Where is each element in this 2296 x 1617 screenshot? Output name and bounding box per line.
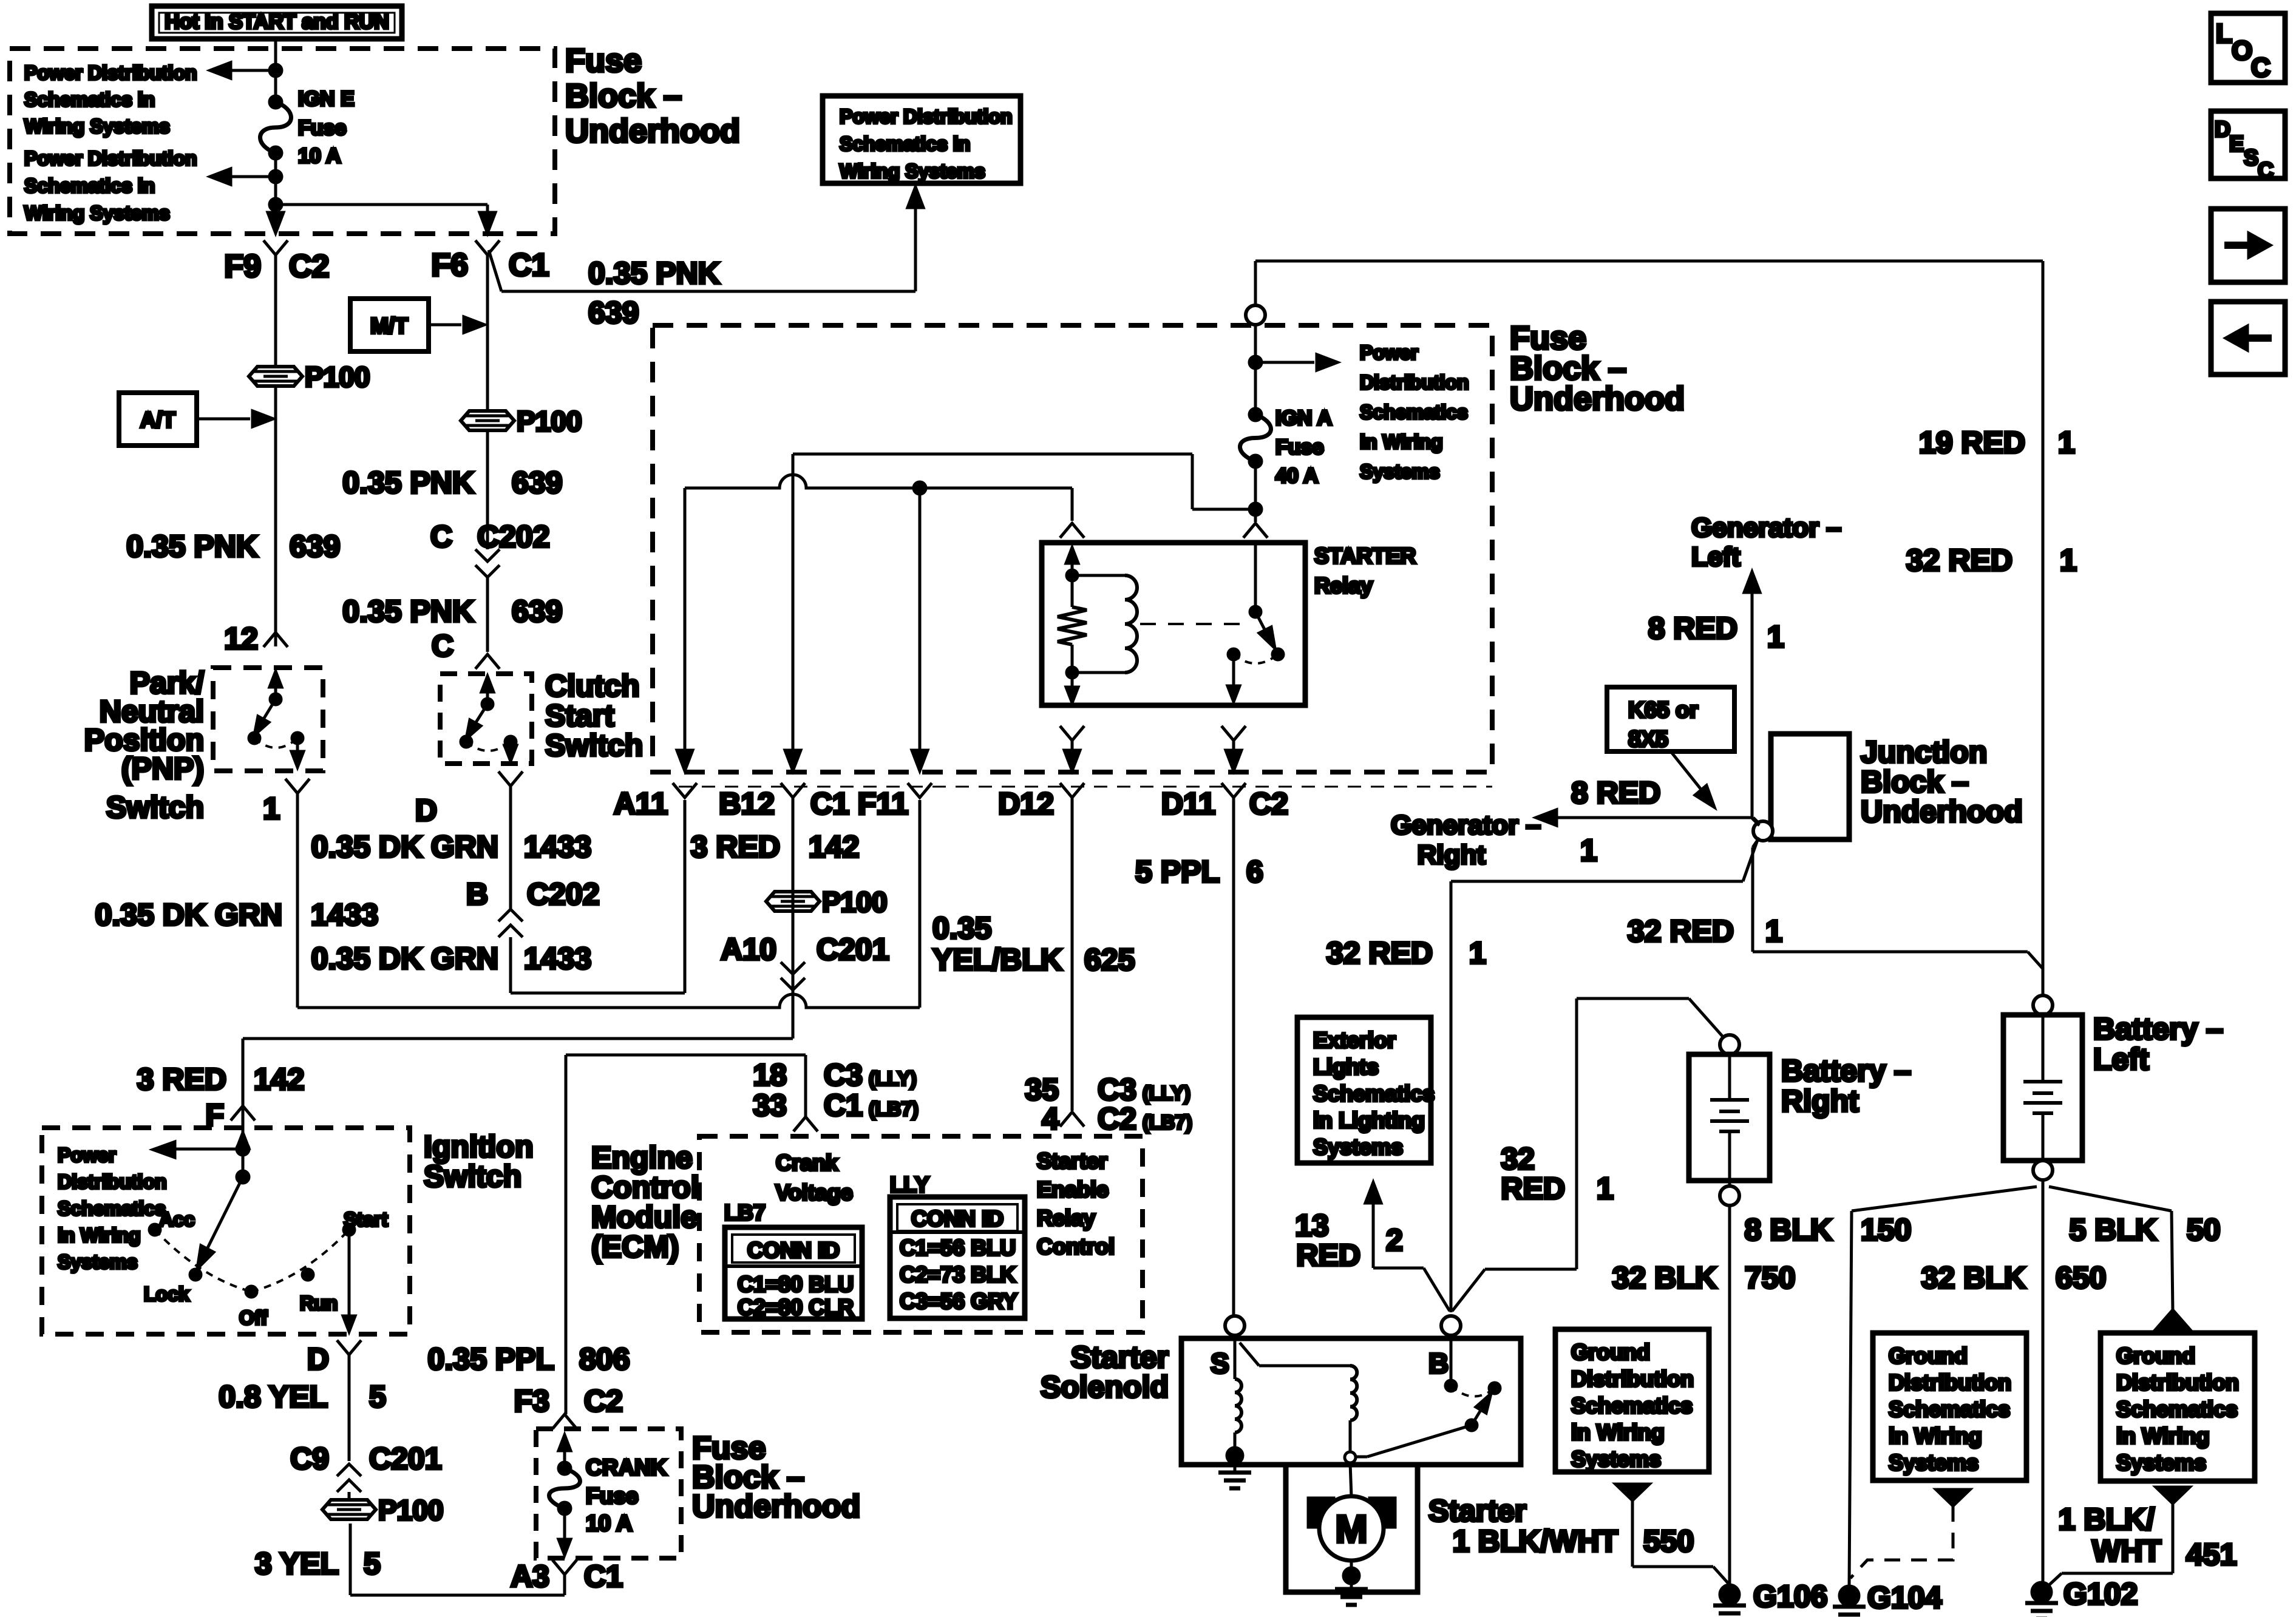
svg-text:WHT: WHT bbox=[2092, 1534, 2161, 1568]
thin connector dashed line below box2 bbox=[679, 786, 1492, 788]
ignition contacts bbox=[149, 1224, 160, 1235]
svg-text:Distribution: Distribution bbox=[1571, 1366, 1694, 1391]
svg-text:32 BLK: 32 BLK bbox=[1921, 1261, 2026, 1295]
svg-text:C9: C9 bbox=[290, 1442, 329, 1476]
svg-text:5 BLK: 5 BLK bbox=[2070, 1213, 2157, 1247]
svg-text:D11: D11 bbox=[1161, 787, 1215, 821]
svg-text:D12: D12 bbox=[998, 787, 1054, 821]
wire: P100 down to PNP switch bbox=[274, 386, 277, 646]
solenoid coil 1 bbox=[1234, 1335, 1237, 1379]
svg-text:Enable: Enable bbox=[1037, 1177, 1109, 1202]
solenoid coil 2 branch bbox=[1240, 1343, 1259, 1366]
wire: clutch output down to C202 (B) bbox=[509, 786, 512, 909]
connector P100 (ignition) bbox=[348, 1492, 351, 1500]
ignition internals bbox=[242, 1128, 245, 1177]
svg-text:2: 2 bbox=[1386, 1223, 1403, 1257]
svg-text:32 RED: 32 RED bbox=[1326, 936, 1433, 970]
svg-text:5 PPL: 5 PPL bbox=[1135, 855, 1220, 889]
svg-text:Schematics: Schematics bbox=[1889, 1397, 2010, 1422]
svg-text:P100: P100 bbox=[517, 405, 582, 437]
svg-text:S: S bbox=[2244, 145, 2258, 170]
svg-text:1 BLK/WHT: 1 BLK/WHT bbox=[1453, 1524, 1618, 1558]
svg-text:Underhood: Underhood bbox=[692, 1489, 860, 1524]
svg-text:40 A: 40 A bbox=[1275, 464, 1319, 487]
ring junction on box2 border bbox=[1246, 305, 1265, 325]
svg-text:Underhood: Underhood bbox=[1510, 381, 1685, 417]
junction dot on C1F11 bbox=[914, 482, 926, 494]
clutch input connector bbox=[475, 654, 500, 669]
svg-text:M/T: M/T bbox=[370, 313, 408, 338]
svg-text:1433: 1433 bbox=[524, 941, 591, 975]
svg-text:32 BLK: 32 BLK bbox=[1612, 1261, 1717, 1295]
svg-text:Fuse: Fuse bbox=[565, 42, 642, 79]
svg-text:1: 1 bbox=[1597, 1171, 1614, 1205]
svg-text:Block –: Block – bbox=[565, 78, 682, 114]
svg-text:L: L bbox=[2216, 19, 2232, 49]
svg-text:CONN ID: CONN ID bbox=[747, 1238, 840, 1263]
svg-text:Underhood: Underhood bbox=[565, 113, 740, 149]
svg-text:5: 5 bbox=[369, 1380, 386, 1414]
Starter Solenoid box bbox=[1225, 1316, 1245, 1335]
wire below IGN A fuse bbox=[1254, 461, 1257, 522]
svg-text:in Wiring: in Wiring bbox=[58, 1224, 141, 1246]
fuse IGN A 40A bbox=[1249, 408, 1262, 421]
svg-text:8 RED: 8 RED bbox=[1571, 776, 1660, 810]
wire branch to F6 column bbox=[276, 203, 487, 206]
svg-text:Block –: Block – bbox=[1861, 765, 1969, 799]
wire: PNP output down bbox=[296, 793, 299, 1008]
svg-text:P100: P100 bbox=[305, 361, 370, 393]
svg-text:C201: C201 bbox=[817, 932, 889, 966]
svg-text:0.35 PNK: 0.35 PNK bbox=[342, 466, 474, 500]
svg-text:Schematics: Schematics bbox=[1571, 1393, 1693, 1418]
svg-text:Power: Power bbox=[1360, 342, 1418, 364]
junction dot / branch to F6 bbox=[270, 198, 282, 211]
svg-text:Wiring Systems: Wiring Systems bbox=[24, 202, 170, 224]
svg-text:550: 550 bbox=[1643, 1524, 1694, 1558]
svg-text:32 RED: 32 RED bbox=[1906, 543, 2012, 577]
connector P100 (on B12 wire) bbox=[766, 892, 820, 911]
svg-text:0.35 DK GRN: 0.35 DK GRN bbox=[311, 830, 498, 864]
Battery - Right bbox=[1720, 1035, 1739, 1054]
wire: B12 column to ignition bus bbox=[792, 798, 795, 1039]
svg-text:C1 F11: C1 F11 bbox=[810, 787, 908, 821]
svg-text:18: 18 bbox=[753, 1058, 787, 1092]
svg-text:C1: C1 bbox=[509, 248, 549, 283]
svg-text:32 RED: 32 RED bbox=[1628, 914, 1734, 948]
output triangle and 1 BLK/WHT 550 wire bbox=[1615, 1484, 1649, 1500]
svg-text:Schematics in: Schematics in bbox=[840, 133, 970, 155]
svg-text:Systems: Systems bbox=[2116, 1450, 2206, 1475]
svg-text:1433: 1433 bbox=[311, 898, 378, 932]
svg-text:(PNP): (PNP) bbox=[121, 751, 204, 785]
wire: P100 down to C202 bbox=[486, 430, 489, 549]
crank fuse internals bbox=[563, 1439, 566, 1468]
svg-text:C: C bbox=[432, 629, 453, 663]
svg-text:1: 1 bbox=[263, 792, 280, 825]
svg-text:C2: C2 bbox=[289, 249, 329, 284]
svg-text:in Wiring: in Wiring bbox=[1889, 1423, 1982, 1448]
arrow into fuse block border (F6) bbox=[480, 212, 495, 233]
Ground Distribution box (G102) bbox=[2101, 1333, 2255, 1481]
svg-text:5: 5 bbox=[364, 1547, 381, 1581]
svg-text:A10: A10 bbox=[721, 932, 776, 966]
svg-text:Wiring Systems: Wiring Systems bbox=[840, 160, 985, 182]
junction dot (bus from B12) bbox=[1249, 503, 1262, 515]
wire: A3 down and left to P100 column bbox=[563, 1575, 566, 1595]
svg-text:1: 1 bbox=[1767, 620, 1784, 654]
svg-text:C1: C1 bbox=[824, 1088, 863, 1122]
wire: D12 column to ECM bbox=[1071, 798, 1074, 1111]
svg-text:639: 639 bbox=[588, 296, 639, 330]
wire: 0.35 PPL 806 column bbox=[565, 1055, 568, 1414]
svg-text:Fuse: Fuse bbox=[1275, 436, 1323, 459]
svg-text:Systems: Systems bbox=[1313, 1134, 1403, 1159]
svg-text:O: O bbox=[2232, 36, 2252, 66]
svg-text:D: D bbox=[307, 1342, 329, 1376]
svg-text:C2: C2 bbox=[1098, 1102, 1136, 1136]
svg-text:Systems: Systems bbox=[1360, 461, 1440, 483]
svg-text:Fuse: Fuse bbox=[298, 117, 346, 140]
svg-text:50: 50 bbox=[2187, 1213, 2221, 1247]
svg-text:451: 451 bbox=[2186, 1537, 2237, 1571]
svg-text:(ECM): (ECM) bbox=[591, 1230, 679, 1264]
svg-text:LLY: LLY bbox=[890, 1172, 929, 1197]
svg-text:C1=80 BLU: C1=80 BLU bbox=[738, 1272, 854, 1297]
svg-text:Engine: Engine bbox=[591, 1141, 693, 1175]
svg-text:150: 150 bbox=[1861, 1213, 1911, 1247]
svg-text:Acc: Acc bbox=[159, 1209, 195, 1230]
svg-text:Start: Start bbox=[545, 699, 614, 733]
rotary blade to Lock bbox=[200, 1177, 243, 1263]
PNP pin connector (12) bbox=[263, 632, 288, 647]
relay resistor bbox=[1071, 575, 1074, 607]
svg-text:8X5: 8X5 bbox=[1628, 727, 1668, 751]
svg-text:Systems: Systems bbox=[1889, 1450, 1978, 1475]
DESC icon box bbox=[2211, 111, 2285, 178]
Fuse Block - Underhood dashed box (middle, with starter relay) bbox=[653, 325, 1492, 772]
svg-text:Power Distribution: Power Distribution bbox=[840, 106, 1012, 127]
svg-text:Distribution: Distribution bbox=[2116, 1370, 2239, 1395]
connector P100 (on F9 wire) bbox=[249, 367, 302, 386]
svg-text:B: B bbox=[1428, 1347, 1449, 1379]
svg-text:RED: RED bbox=[1296, 1238, 1360, 1272]
svg-text:A3: A3 bbox=[511, 1559, 549, 1593]
wire: 13 RED up arrow bbox=[1372, 1188, 1375, 1268]
svg-text:S: S bbox=[1211, 1347, 1229, 1379]
svg-text:3 RED: 3 RED bbox=[137, 1062, 226, 1096]
svg-text:Schematics: Schematics bbox=[1313, 1081, 1435, 1106]
Battery - Left bbox=[2033, 995, 2053, 1015]
svg-text:Power: Power bbox=[58, 1144, 116, 1166]
Engine Control Module (ECM) dashed box bbox=[699, 1136, 1143, 1332]
junction dot bbox=[270, 171, 282, 183]
svg-text:1: 1 bbox=[1580, 833, 1597, 867]
junction dot + arrow right to Power Distribution note bbox=[1249, 356, 1262, 368]
wire: C1F11 column lower bbox=[919, 800, 922, 1008]
pin A3 C1 bbox=[552, 1560, 577, 1575]
Ground Distribution box (G104) bbox=[1873, 1333, 2026, 1480]
wire below fuse bbox=[274, 153, 277, 231]
svg-text:B: B bbox=[466, 877, 488, 911]
LB7 CONN ID table bbox=[725, 1227, 862, 1319]
svg-text:142: 142 bbox=[254, 1062, 304, 1096]
wire: B column from junction block bbox=[1450, 881, 1453, 1312]
clutch switch internals bbox=[486, 680, 489, 704]
connector C201 (C9) bbox=[337, 1464, 361, 1476]
svg-text:6: 6 bbox=[1246, 855, 1263, 889]
svg-text:E: E bbox=[2229, 131, 2244, 156]
svg-text:3 RED: 3 RED bbox=[691, 830, 780, 864]
svg-text:(LLY): (LLY) bbox=[869, 1068, 917, 1090]
svg-text:4: 4 bbox=[1042, 1102, 1059, 1136]
svg-text:G106: G106 bbox=[1753, 1579, 1827, 1613]
svg-text:639: 639 bbox=[512, 466, 562, 500]
svg-text:STARTER: STARTER bbox=[1314, 543, 1416, 568]
svg-text:Relay: Relay bbox=[1037, 1205, 1095, 1230]
svg-text:8 BLK: 8 BLK bbox=[1745, 1213, 1832, 1247]
svg-text:Generator –: Generator – bbox=[1691, 513, 1841, 543]
svg-text:P100: P100 bbox=[378, 1494, 443, 1526]
svg-text:142: 142 bbox=[809, 830, 859, 864]
svg-text:Ground: Ground bbox=[1571, 1340, 1650, 1364]
svg-text:D: D bbox=[415, 793, 437, 827]
svg-text:0.35: 0.35 bbox=[932, 911, 991, 945]
wire arrow A/T to F9 wire bbox=[197, 418, 250, 421]
PNP switch internals bbox=[274, 675, 277, 699]
Exterior Lights Schematics box bbox=[1297, 1017, 1431, 1163]
svg-text:Starter: Starter bbox=[1428, 1494, 1526, 1528]
clutch output pin D bbox=[498, 771, 523, 786]
relay coil leg (D12) bbox=[1071, 550, 1074, 575]
Junction Block - Underhood box bbox=[1771, 734, 1849, 839]
svg-text:F3: F3 bbox=[514, 1384, 549, 1418]
arrow into fuse block border (F9) bbox=[268, 212, 284, 233]
svg-text:Distribution: Distribution bbox=[58, 1171, 167, 1193]
pin F6 / C1 connector bbox=[475, 240, 500, 255]
svg-text:G104: G104 bbox=[1867, 1581, 1942, 1615]
connector C201 (A10) bbox=[781, 962, 805, 974]
wire: from Hot box down (W1 x=454) bbox=[274, 39, 277, 102]
svg-text:C: C bbox=[2251, 53, 2271, 83]
wire: 13 RED branch into B bbox=[1373, 1267, 1424, 1270]
fuse IGN E 10A bbox=[270, 96, 282, 108]
svg-text:C1: C1 bbox=[584, 1559, 623, 1593]
svg-text:Start: Start bbox=[344, 1209, 388, 1230]
svg-text:Left: Left bbox=[2093, 1042, 2149, 1076]
svg-text:(LB7): (LB7) bbox=[1143, 1111, 1192, 1133]
svg-text:Ground: Ground bbox=[2116, 1343, 2195, 1368]
svg-text:B12: B12 bbox=[719, 787, 775, 821]
svg-text:C202: C202 bbox=[477, 520, 550, 554]
svg-text:Control: Control bbox=[591, 1170, 699, 1204]
svg-text:IGN A: IGN A bbox=[1275, 407, 1332, 430]
svg-text:Lights: Lights bbox=[1313, 1054, 1379, 1079]
ground G104 bbox=[1839, 1586, 1859, 1605]
battery left splits bbox=[2042, 1180, 2045, 1582]
solenoid switch at B bbox=[1450, 1335, 1453, 1386]
svg-text:33: 33 bbox=[753, 1088, 787, 1122]
svg-text:Switch: Switch bbox=[545, 728, 643, 762]
svg-text:Lock: Lock bbox=[144, 1283, 189, 1305]
ground G102 bbox=[2032, 1582, 2051, 1602]
wire: D12 drop into relay bbox=[1071, 488, 1074, 521]
LLY CONN ID table bbox=[890, 1197, 1025, 1318]
svg-text:C2=80 CLR: C2=80 CLR bbox=[738, 1295, 854, 1320]
pin connectors below box2 bbox=[673, 783, 697, 798]
PNP output pin 1 bbox=[285, 779, 310, 793]
svg-text:Ignition: Ignition bbox=[424, 1130, 534, 1164]
svg-text:806: 806 bbox=[579, 1342, 630, 1376]
wire: A11 column bbox=[684, 800, 687, 993]
svg-text:Schematics in: Schematics in bbox=[24, 89, 155, 110]
svg-text:Distribution: Distribution bbox=[1889, 1370, 2011, 1395]
svg-text:Right: Right bbox=[1418, 840, 1486, 870]
svg-text:Underhood: Underhood bbox=[1861, 795, 2023, 829]
relay switch bbox=[1254, 543, 1257, 612]
svg-text:C2=73 BLK: C2=73 BLK bbox=[900, 1262, 1016, 1287]
svg-text:Junction: Junction bbox=[1861, 735, 1987, 769]
svg-text:1: 1 bbox=[1765, 914, 1782, 948]
svg-text:0.35 DK GRN: 0.35 DK GRN bbox=[95, 898, 282, 932]
svg-text:IGN E: IGN E bbox=[298, 87, 355, 110]
svg-text:Exterior: Exterior bbox=[1313, 1028, 1396, 1053]
wire: coil bus A11/C1F11/D12 (hops over B12) bbox=[685, 475, 1072, 488]
LOC icon box bbox=[2211, 13, 2285, 83]
solenoid ground (under S coil) bbox=[1234, 1456, 1237, 1471]
wire: down to A11 bus bbox=[509, 937, 512, 993]
svg-text:Power Distribution: Power Distribution bbox=[24, 62, 197, 84]
wire: bus clutch to A11 bbox=[511, 992, 685, 995]
svg-text:13: 13 bbox=[1295, 1209, 1329, 1242]
svg-text:Schematics: Schematics bbox=[1360, 401, 1468, 423]
junction block ring bbox=[1753, 821, 1773, 841]
svg-text:G102: G102 bbox=[2063, 1577, 2138, 1611]
input triangle (5 BLK 50) bbox=[2156, 1310, 2190, 1329]
svg-text:0.35 PNK: 0.35 PNK bbox=[588, 256, 720, 290]
IGN A column top bbox=[1254, 261, 1257, 305]
svg-text:C201: C201 bbox=[369, 1442, 442, 1476]
svg-text:Systems: Systems bbox=[1571, 1446, 1661, 1471]
A/T box bbox=[119, 393, 197, 446]
wire: generator right arrow bbox=[1542, 816, 1753, 819]
svg-text:0.35 PPL: 0.35 PPL bbox=[428, 1342, 554, 1376]
svg-text:12: 12 bbox=[224, 622, 258, 656]
svg-text:D: D bbox=[2215, 117, 2230, 141]
wire: 0.35 PNK branch to power distribution schematic arrow bbox=[489, 250, 501, 291]
svg-text:0.35 PNK: 0.35 PNK bbox=[126, 529, 258, 563]
svg-text:P100: P100 bbox=[822, 886, 887, 918]
svg-text:(LB7): (LB7) bbox=[869, 1098, 919, 1120]
pin F9 / C2 connector bbox=[263, 240, 288, 255]
K65 or 8X5 box bbox=[1607, 687, 1734, 751]
svg-text:RED: RED bbox=[1501, 1171, 1565, 1205]
fuse block underhood dashed box (top left) bbox=[10, 49, 555, 234]
wire: 19 RED column bbox=[2042, 261, 2045, 995]
svg-text:Control: Control bbox=[1037, 1234, 1115, 1259]
svg-text:in Lighting: in Lighting bbox=[1313, 1108, 1425, 1133]
wire: D column bbox=[348, 1355, 351, 1461]
svg-text:Left: Left bbox=[1691, 542, 1741, 572]
svg-text:32: 32 bbox=[1501, 1142, 1535, 1176]
svg-text:0.35 DK GRN: 0.35 DK GRN bbox=[311, 941, 498, 975]
svg-text:(LLY): (LLY) bbox=[1143, 1082, 1190, 1104]
svg-text:Generator –: Generator – bbox=[1391, 810, 1541, 840]
svg-text:F9: F9 bbox=[224, 249, 261, 284]
wire arrow M/T to F6 wire bbox=[429, 324, 461, 327]
wire: C1F11 column upper bbox=[919, 488, 922, 771]
svg-text:C1=56 BLU: C1=56 BLU bbox=[900, 1235, 1016, 1260]
svg-text:19 RED: 19 RED bbox=[1919, 425, 2025, 459]
svg-text:1433: 1433 bbox=[524, 830, 591, 864]
svg-text:0.35 PNK: 0.35 PNK bbox=[342, 594, 474, 628]
motor bbox=[1350, 1463, 1351, 1497]
wire: D11 column down to starter solenoid S bbox=[1232, 798, 1235, 1316]
dashed output to G104 bbox=[1936, 1490, 1970, 1506]
relay actuation dashed link bbox=[1140, 623, 1246, 625]
svg-text:Voltage: Voltage bbox=[775, 1180, 852, 1205]
svg-text:639: 639 bbox=[290, 529, 340, 563]
Start output wire bbox=[348, 1230, 351, 1326]
svg-text:1 BLK/: 1 BLK/ bbox=[2059, 1502, 2155, 1536]
svg-text:Systems: Systems bbox=[58, 1251, 138, 1273]
M/T box bbox=[350, 299, 429, 351]
Ground Distribution box (middle) bbox=[1555, 1329, 1709, 1472]
wire: junction block to 19RED column jumper bbox=[1753, 838, 1759, 847]
CRANK Fuse dashed box bbox=[536, 1429, 681, 1558]
svg-text:Schematics: Schematics bbox=[2116, 1397, 2238, 1422]
wire: bus PNP to C1F11 (hops over B12) bbox=[297, 994, 920, 1008]
svg-text:Power Distribution: Power Distribution bbox=[24, 147, 197, 169]
wire: ECM crank voltage bus bbox=[566, 1054, 806, 1057]
Clutch Start Switch dashed box bbox=[440, 674, 532, 764]
svg-text:Starter: Starter bbox=[1071, 1340, 1169, 1374]
svg-text:10 A: 10 A bbox=[586, 1511, 633, 1536]
junction dot bbox=[270, 64, 282, 76]
wire arrow to Power Distribution (1st) bbox=[231, 69, 276, 72]
Park/Neutral Position (PNP) Switch dashed box bbox=[213, 668, 323, 771]
wire: B12 column upper bbox=[792, 454, 795, 771]
wire: A11 column upper bbox=[684, 488, 687, 771]
svg-text:625: 625 bbox=[1084, 943, 1135, 977]
svg-text:M: M bbox=[1335, 1507, 1367, 1551]
svg-text:Run: Run bbox=[300, 1292, 338, 1314]
wire: bus B12 to relay common bbox=[793, 453, 1192, 456]
wire: generator left column bbox=[1751, 578, 1754, 818]
wire: 19 RED bus from IGN A column bbox=[1255, 260, 2043, 263]
wire: top jumper to junction block ring bbox=[1451, 880, 1743, 883]
svg-text:Fuse: Fuse bbox=[586, 1483, 638, 1508]
arrows at box2 bottom border bbox=[677, 750, 693, 771]
svg-text:C: C bbox=[2258, 158, 2274, 183]
svg-text:Schematics in: Schematics in bbox=[24, 175, 155, 197]
output triangle and 1 BLK/WHT 451 wire bbox=[2156, 1487, 2190, 1503]
ground G106 bbox=[1720, 1585, 1739, 1604]
STARTER Relay box bbox=[1042, 543, 1305, 705]
arrow from K65 box to 8 RED wire bbox=[1671, 751, 1710, 800]
connector P100 (on F6 wire) bbox=[461, 411, 514, 430]
wire arrow to Power Distribution (2nd) bbox=[231, 175, 276, 178]
svg-text:Distribution: Distribution bbox=[1360, 371, 1469, 393]
svg-text:Switch: Switch bbox=[424, 1159, 521, 1193]
svg-text:in Wiring: in Wiring bbox=[2116, 1423, 2210, 1448]
svg-text:Crank: Crank bbox=[776, 1150, 838, 1175]
Power Distribution Schematics box (top middle) bbox=[823, 96, 1021, 183]
svg-text:Hot in START and RUN: Hot in START and RUN bbox=[165, 10, 389, 33]
svg-text:F6: F6 bbox=[431, 248, 468, 283]
svg-text:in Wiring: in Wiring bbox=[1571, 1420, 1665, 1445]
right arrow icon box bbox=[2211, 209, 2285, 282]
